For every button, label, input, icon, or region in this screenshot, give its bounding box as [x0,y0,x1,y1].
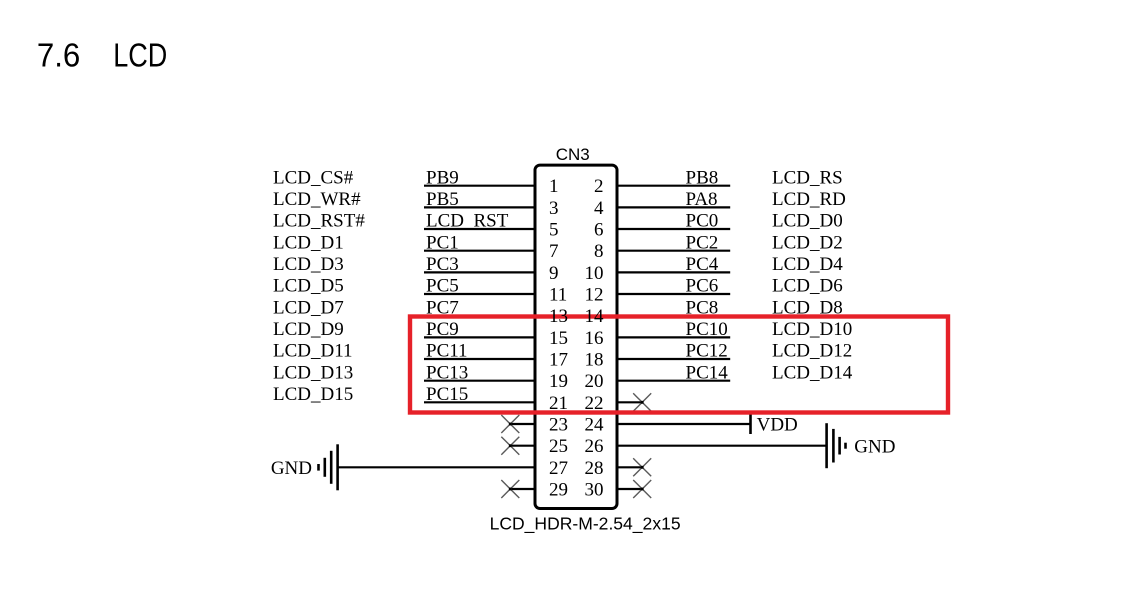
wire stub pin 30 [617,488,643,490]
svg-text:9: 9 [549,263,559,284]
svg-text:24: 24 [585,415,605,436]
svg-text:12: 12 [585,285,604,306]
svg-text:PC9: PC9 [426,319,459,340]
svg-text:LCD_WR#: LCD_WR# [273,189,361,210]
wire pin 9 net PC3 [424,271,536,273]
svg-text:PB8: PB8 [686,167,719,188]
svg-text:8: 8 [594,241,604,262]
svg-text:PB5: PB5 [426,189,459,210]
svg-text:11: 11 [549,285,567,306]
svg-text:LCD_RS: LCD_RS [772,167,843,188]
wire pin 24 to VDD [617,423,751,425]
svg-text:22: 22 [585,393,604,414]
svg-text:LCD_D9: LCD_D9 [273,319,344,340]
red highlight rectangle [410,317,948,413]
svg-text:16: 16 [585,328,604,349]
wire pin 19 net PC13 [424,380,536,382]
wire pin 5 net LCD_RST [424,228,536,230]
svg-text:LCD_D6: LCD_D6 [772,276,843,297]
wire pin 11 net PC5 [424,293,536,295]
svg-text:LCD_D4: LCD_D4 [772,254,843,275]
wire pin 14 net PC8 [617,315,731,317]
svg-text:21: 21 [549,393,568,414]
svg-text:LCD: LCD [113,37,167,74]
no-connect X pin 29 [501,480,519,498]
svg-text:3: 3 [549,198,559,219]
wire stub pin 22 [617,401,643,403]
wire pin 7 net PC1 [424,250,536,252]
svg-text:7.6: 7.6 [37,37,80,74]
svg-text:PC2: PC2 [686,232,719,253]
svg-text:PA8: PA8 [686,189,718,210]
no-connect X pin 22 [633,393,651,411]
svg-text:LCD_D1: LCD_D1 [273,232,344,253]
wire pin 3 net PB5 [424,206,536,208]
svg-text:4: 4 [594,198,604,219]
svg-text:LCD_D3: LCD_D3 [273,254,344,275]
wire pin 15 net PC9 [424,336,536,338]
svg-text:LCD_D15: LCD_D15 [273,384,353,405]
svg-text:LCD_D7: LCD_D7 [273,297,344,318]
svg-text:PC3: PC3 [426,254,459,275]
svg-text:PC15: PC15 [426,384,468,405]
svg-text:LCD_HDR-M-2.54_2x15: LCD_HDR-M-2.54_2x15 [490,513,681,534]
wire pin 17 net PC11 [424,358,536,360]
svg-text:CN3: CN3 [556,145,590,164]
svg-text:19: 19 [549,371,568,392]
svg-text:PC14: PC14 [686,362,729,383]
svg-text:PB9: PB9 [426,167,459,188]
svg-text:13: 13 [549,306,568,327]
wire stub pin 28 [617,466,643,468]
svg-text:LCD_RST#: LCD_RST# [273,211,365,232]
power symbol VDD bar [749,414,752,434]
svg-text:PC11: PC11 [426,341,468,362]
connector CN3 body [535,165,617,508]
svg-text:LCD_D13: LCD_D13 [273,362,353,383]
svg-text:23: 23 [549,415,568,436]
svg-text:26: 26 [585,436,604,457]
no-connect X pin 23 [501,415,519,433]
wire pin 18 net PC12 [617,358,731,360]
wire pin 12 net PC6 [617,293,731,295]
wire pin 27 to GND [338,466,536,468]
wire stub pin 23 [510,423,535,425]
svg-text:LCD_D12: LCD_D12 [772,341,852,362]
svg-text:PC10: PC10 [686,319,728,340]
svg-text:27: 27 [549,458,568,479]
wire pin 1 net PB9 [424,185,536,187]
svg-text:25: 25 [549,436,568,457]
wire pin 4 net PA8 [617,206,731,208]
no-connect X pin 25 [501,437,519,455]
svg-text:17: 17 [549,350,568,371]
svg-text:VDD: VDD [757,414,798,435]
wire stub pin 29 [510,488,535,490]
ground symbol right [827,423,846,468]
svg-text:6: 6 [594,220,604,241]
svg-text:5: 5 [549,220,559,241]
svg-text:7: 7 [549,241,559,262]
svg-text:LCD_D11: LCD_D11 [273,341,353,362]
wire pin 26 to GND [617,445,827,447]
ground symbol left [319,444,338,490]
svg-text:LCD_D14: LCD_D14 [772,362,853,383]
svg-text:PC13: PC13 [426,362,468,383]
svg-text:LCD_D0: LCD_D0 [772,211,843,232]
svg-text:GND: GND [271,458,312,479]
svg-text:PC0: PC0 [686,211,719,232]
svg-text:LCD_RD: LCD_RD [772,189,846,210]
wire pin 6 net PC0 [617,228,731,230]
svg-text:PC4: PC4 [686,254,719,275]
svg-text:LCD_D10: LCD_D10 [772,319,852,340]
svg-text:29: 29 [549,480,568,501]
svg-text:PC6: PC6 [686,276,719,297]
wire pin 13 net PC7 [424,315,536,317]
svg-text:2: 2 [594,176,604,197]
svg-text:14: 14 [585,306,605,327]
svg-text:20: 20 [585,371,604,392]
svg-text:PC1: PC1 [426,232,459,253]
no-connect X pin 30 [633,480,651,498]
svg-text:LCD_CS#: LCD_CS# [273,167,354,188]
svg-text:PC12: PC12 [686,341,728,362]
svg-text:30: 30 [585,480,604,501]
wire pin 21 net PC15 [424,401,536,403]
wire pin 8 net PC2 [617,250,731,252]
svg-text:LCD_D2: LCD_D2 [772,232,843,253]
svg-text:LCD_D5: LCD_D5 [273,276,344,297]
wire stub pin 25 [510,445,535,447]
svg-text:1: 1 [549,176,559,197]
wire pin 10 net PC4 [617,271,731,273]
svg-text:28: 28 [585,458,604,479]
svg-text:18: 18 [585,350,604,371]
wire pin 2 net PB8 [617,185,731,187]
svg-text:LCD_RST: LCD_RST [426,211,509,232]
wire pin 20 net PC14 [617,380,731,382]
no-connect X pin 28 [633,458,651,476]
svg-text:GND: GND [854,437,895,458]
svg-text:10: 10 [585,263,604,284]
wire pin 16 net PC10 [617,336,731,338]
svg-text:15: 15 [549,328,568,349]
svg-text:PC5: PC5 [426,276,459,297]
